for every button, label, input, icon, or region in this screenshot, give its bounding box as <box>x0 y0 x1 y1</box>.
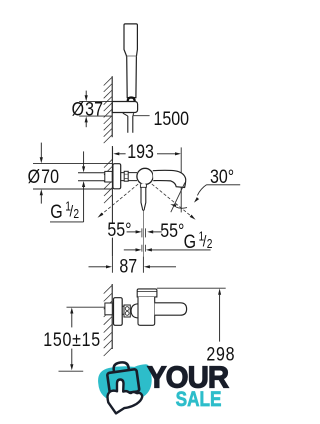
wall (middle drawing) <box>111 146 113 256</box>
G 1/2 label left <box>50 221 84 223</box>
svg-text:SALE: SALE <box>176 387 222 411</box>
union nut <box>124 171 128 181</box>
outlet nipple ticks <box>142 228 146 237</box>
dim 193 <box>112 147 114 160</box>
body cylinder (bottom) <box>138 297 155 325</box>
lever swing dashed line right <box>152 184 193 217</box>
dim Ø37 extension lines <box>79 101 112 116</box>
leader 1500 <box>133 115 149 117</box>
svg-text:G: G <box>50 200 62 222</box>
supply thread dim arrows <box>83 151 85 167</box>
union lines (bottom) <box>122 306 124 314</box>
union nut (bottom) <box>124 305 130 317</box>
shower hose <box>128 116 133 133</box>
logo click hand <box>108 379 143 413</box>
dim Ø70 arrows <box>40 143 42 158</box>
supply pipe behind wall <box>78 173 105 181</box>
extension line (spout tip) <box>180 147 182 212</box>
G 1/2 label right <box>184 230 213 252</box>
55deg dim arrows at centerline <box>127 231 136 233</box>
svg-text:2: 2 <box>207 238 213 251</box>
cartridge body circle <box>137 168 153 184</box>
svg-text:Ø37: Ø37 <box>72 98 103 120</box>
wall hatching (bottom) <box>104 285 112 356</box>
svg-text:55°: 55° <box>107 219 131 241</box>
dim 150±15 <box>71 313 73 327</box>
svg-text:150±15: 150±15 <box>43 329 101 351</box>
wall hatching (top) <box>104 77 112 143</box>
logo shopping bag <box>106 360 140 395</box>
svg-text:G: G <box>184 230 196 252</box>
union to body <box>121 173 125 181</box>
hand shower handle <box>127 56 137 97</box>
lever plate (bottom) <box>137 289 157 297</box>
30 degree leader <box>197 185 206 196</box>
wall nut <box>105 171 112 182</box>
dim Ø37 arrows <box>85 91 87 96</box>
wall (bottom drawing) <box>111 284 113 349</box>
lever collar <box>140 184 146 187</box>
wall nut (bottom) <box>105 303 112 315</box>
hand shower head <box>124 24 137 57</box>
lever rod <box>141 184 146 211</box>
escutcheon (bottom) <box>114 298 123 326</box>
svg-text:Ø70: Ø70 <box>28 166 59 188</box>
svg-text:30°: 30° <box>210 166 234 188</box>
escutcheon <box>113 164 121 189</box>
svg-text:55°: 55° <box>160 219 184 241</box>
svg-text:2: 2 <box>73 208 79 221</box>
wall (top drawing) <box>111 76 113 137</box>
svg-text:1500: 1500 <box>154 108 190 130</box>
rotation arrow at spout <box>176 207 187 208</box>
datum line <box>59 370 84 372</box>
centerline below lever <box>143 211 145 256</box>
dim Ø70 extension lines <box>33 164 112 189</box>
logo teal blob <box>98 364 152 401</box>
spout <box>153 170 186 187</box>
svg-text:87: 87 <box>119 255 137 277</box>
spout (bottom view) <box>155 303 187 315</box>
body joint bulge <box>131 304 138 318</box>
wall holder bracket <box>112 102 137 113</box>
hose cone <box>123 113 134 116</box>
supply pipe line <box>67 306 113 308</box>
outlet thread dim (G 1/2 right) <box>124 249 136 251</box>
wall hatching (middle) <box>104 159 112 203</box>
dim 298 <box>157 287 226 289</box>
svg-text:193: 193 <box>127 140 154 162</box>
lever swing dashed line left <box>101 184 139 215</box>
holder hook <box>128 98 135 102</box>
dim 87 <box>112 256 143 272</box>
30 degree slant line <box>171 183 185 213</box>
